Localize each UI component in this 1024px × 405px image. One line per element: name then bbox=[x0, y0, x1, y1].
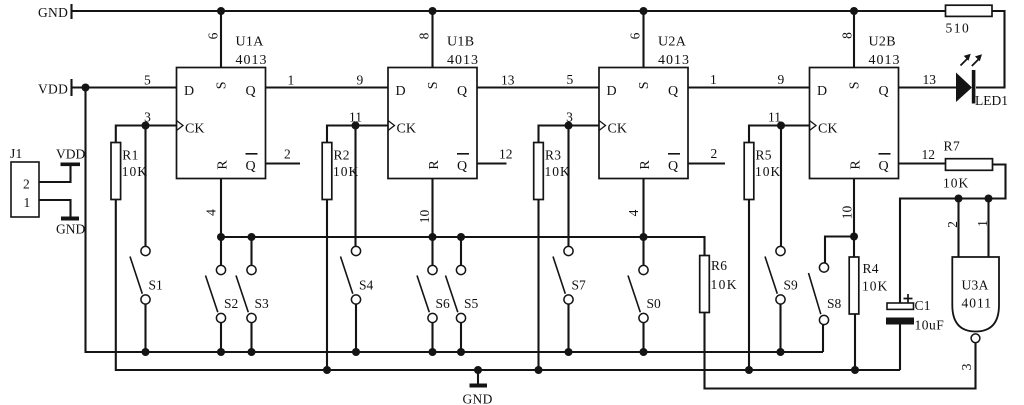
svg-text:VDD: VDD bbox=[56, 147, 85, 162]
svg-text:6: 6 bbox=[627, 32, 642, 39]
resistor R4 10K bbox=[849, 257, 859, 314]
svg-text:U1A: U1A bbox=[236, 35, 265, 50]
wire bottom GND rail (R1 to C1) bbox=[116, 200, 900, 371]
switch S5 bbox=[456, 265, 465, 274]
switch S8 bbox=[819, 263, 828, 272]
svg-text:Q: Q bbox=[879, 159, 890, 174]
svg-text:9: 9 bbox=[357, 73, 364, 88]
svg-text:D: D bbox=[184, 84, 195, 99]
wire S1 to VDD bottom rail bbox=[144, 304, 146, 352]
node R3 / GND rail bbox=[535, 366, 543, 374]
svg-text:5: 5 bbox=[144, 73, 151, 88]
node S0 / VDD rail bbox=[640, 348, 648, 356]
svg-text:R: R bbox=[427, 160, 442, 170]
svg-text:S7: S7 bbox=[572, 277, 587, 292]
switch S2 bbox=[216, 265, 225, 274]
wire reset net to S0 bbox=[642, 237, 644, 265]
svg-text:CK: CK bbox=[608, 122, 627, 137]
wire CK net to R5 / U2B CK bbox=[749, 126, 810, 143]
resistor 510 bbox=[946, 5, 993, 16]
svg-text:S3: S3 bbox=[255, 296, 270, 311]
svg-text:U2B: U2B bbox=[869, 35, 896, 50]
svg-text:4013: 4013 bbox=[869, 53, 901, 68]
svg-text:R1: R1 bbox=[122, 148, 138, 163]
wire VDD drop to bottom VDD rail bbox=[86, 88, 824, 353]
svg-text:GND: GND bbox=[463, 392, 493, 405]
svg-text:S1: S1 bbox=[149, 277, 163, 292]
wire reset net to S3 bbox=[250, 237, 252, 265]
svg-text:R2: R2 bbox=[334, 148, 350, 163]
wire S7 to VDD bottom rail bbox=[567, 304, 569, 352]
wire U1A Q to U1B D bbox=[266, 86, 389, 88]
resistor R2 10K bbox=[322, 143, 332, 200]
wire CK net to S9 bbox=[780, 126, 782, 247]
svg-text:10K: 10K bbox=[943, 176, 969, 191]
node VDD junction bbox=[82, 84, 90, 92]
wire CK net to R1 / U1A CK bbox=[116, 126, 177, 143]
svg-text:8: 8 bbox=[416, 32, 431, 39]
LED D1 bbox=[956, 73, 972, 103]
wire U1A Q-bar stub (pin 2) bbox=[266, 162, 301, 164]
node pin2 / RC net bbox=[955, 195, 963, 203]
wire CK net to R3 / U2A CK bbox=[539, 126, 600, 143]
resistor R3 10K bbox=[534, 143, 544, 200]
power symbol VDD (J1) bbox=[61, 163, 81, 167]
svg-text:U1B: U1B bbox=[447, 35, 474, 50]
node S1 / VDD rail bbox=[142, 348, 150, 356]
svg-text:9: 9 bbox=[778, 72, 785, 87]
wire CK net to S7 bbox=[567, 126, 569, 247]
D flip-flop U2A 4013 bbox=[599, 68, 688, 179]
node S9 / VDD rail bbox=[777, 348, 785, 356]
svg-text:LED1: LED1 bbox=[975, 93, 1008, 108]
node R2 / GND rail bbox=[323, 366, 331, 374]
node GND rail / ground stem bbox=[474, 366, 482, 374]
wire S0 to VDD bottom rail bbox=[642, 323, 644, 352]
switch S9 bbox=[776, 246, 785, 255]
wire U3A pin 1 bbox=[987, 199, 989, 258]
svg-text:2: 2 bbox=[284, 147, 291, 162]
wire U2B S pin to GND rail bbox=[853, 11, 855, 68]
svg-text:S8: S8 bbox=[827, 296, 842, 311]
svg-text:2: 2 bbox=[23, 177, 30, 192]
wire S2 to VDD bottom rail bbox=[220, 323, 222, 352]
wire U1A S pin to GND rail bbox=[220, 11, 222, 68]
D flip-flop U1B 4013 bbox=[388, 68, 477, 179]
svg-text:10: 10 bbox=[839, 206, 854, 220]
svg-text:R7: R7 bbox=[944, 139, 961, 154]
wire R7 to U3A inputs / C1 top bbox=[900, 165, 1006, 304]
wire U3A pin 2 bbox=[957, 199, 959, 258]
ground symbol (bottom) bbox=[477, 370, 479, 384]
node S6 / VDD rail bbox=[429, 348, 437, 356]
svg-text:GND: GND bbox=[56, 222, 85, 237]
wire U1B S pin to GND rail bbox=[431, 11, 433, 68]
switch S1 bbox=[141, 246, 150, 255]
svg-text:Q: Q bbox=[246, 84, 257, 99]
wire U2A S pin to GND rail bbox=[642, 11, 644, 68]
svg-text:6: 6 bbox=[205, 32, 220, 39]
wire R3 bottom to GND rail bbox=[537, 200, 539, 371]
node U1A R / reset net bbox=[217, 233, 225, 241]
node S-hang on CK net bbox=[352, 122, 360, 130]
node S7 / VDD rail bbox=[565, 348, 573, 356]
svg-text:Q: Q bbox=[668, 84, 679, 99]
node U1B S / GND rail junction bbox=[429, 7, 437, 15]
switch S7 bbox=[564, 246, 573, 255]
svg-text:U3A: U3A bbox=[962, 278, 989, 293]
svg-text:D: D bbox=[817, 84, 828, 99]
switch S3 bbox=[247, 265, 256, 274]
wire reset net (pin 4 line) to R6 bbox=[221, 237, 705, 256]
wire U1B R pin down bbox=[431, 179, 433, 238]
node S5 hang / reset net bbox=[457, 233, 465, 241]
svg-text:4011: 4011 bbox=[962, 296, 993, 311]
svg-text:2: 2 bbox=[711, 146, 718, 161]
GND rail tick bbox=[70, 4, 72, 19]
nand gate U3A 4011 bbox=[952, 257, 999, 332]
wire U2B R pin to R4 and S8 bbox=[853, 179, 855, 237]
wire U1B Q to U2A D bbox=[477, 86, 599, 88]
wire S3 to VDD bottom rail bbox=[250, 323, 252, 352]
wire S4 to VDD bottom rail bbox=[355, 304, 357, 352]
svg-text:C1: C1 bbox=[915, 298, 931, 313]
wire S8 to VDD bottom rail end bbox=[822, 325, 824, 352]
svg-text:10K: 10K bbox=[711, 277, 738, 292]
wire R5 bottom to GND rail bbox=[748, 200, 750, 371]
wire U1B Q-bar stub (pin 12) bbox=[477, 162, 507, 164]
svg-text:13: 13 bbox=[923, 72, 937, 87]
svg-text:U2A: U2A bbox=[658, 35, 687, 50]
svg-text:D: D bbox=[396, 84, 407, 99]
svg-text:10uF: 10uF bbox=[915, 318, 945, 333]
svg-text:4013: 4013 bbox=[658, 53, 690, 68]
wire CK net to S4 bbox=[354, 126, 356, 247]
wire U2A Q-bar stub (pin 2) bbox=[688, 162, 725, 164]
node S3 hang / reset net bbox=[248, 233, 256, 241]
svg-text:S: S bbox=[215, 81, 230, 89]
wire J1 pin 2 to VDD symbol bbox=[39, 166, 71, 182]
wire VDD rail to U1A D bbox=[72, 86, 177, 88]
svg-text:12: 12 bbox=[499, 147, 513, 162]
switch S6 bbox=[428, 265, 437, 274]
svg-text:CK: CK bbox=[185, 122, 204, 137]
svg-text:1: 1 bbox=[288, 73, 295, 88]
capacitor C1 10uF bbox=[887, 303, 914, 309]
svg-text:3: 3 bbox=[959, 363, 974, 370]
svg-text:10K: 10K bbox=[862, 279, 888, 294]
wire S9 to VDD bottom rail bbox=[779, 304, 781, 352]
svg-text:GND: GND bbox=[38, 5, 68, 20]
svg-text:13: 13 bbox=[501, 73, 515, 88]
svg-text:R3: R3 bbox=[545, 148, 561, 163]
svg-text:R: R bbox=[638, 160, 653, 170]
wire reset net to S2 bbox=[220, 237, 222, 265]
svg-text:Q: Q bbox=[457, 159, 468, 174]
svg-text:J1: J1 bbox=[10, 146, 23, 161]
svg-text:3: 3 bbox=[144, 110, 151, 125]
svg-text:S: S bbox=[426, 81, 441, 89]
svg-text:8: 8 bbox=[839, 32, 854, 39]
svg-text:Q: Q bbox=[457, 84, 468, 99]
node S-hang on CK net bbox=[565, 122, 573, 130]
node U2A S / GND rail junction bbox=[640, 7, 648, 15]
svg-text:S4: S4 bbox=[359, 277, 374, 292]
svg-text:Q: Q bbox=[879, 84, 890, 99]
svg-text:4: 4 bbox=[626, 209, 641, 216]
svg-text:S2: S2 bbox=[224, 296, 238, 311]
svg-text:D: D bbox=[607, 84, 618, 99]
node U2B R / R4 / S8 junction bbox=[850, 233, 858, 241]
svg-text:1: 1 bbox=[24, 195, 31, 210]
svg-text:10K: 10K bbox=[545, 164, 571, 179]
wire 510 to LED1 cathode bbox=[976, 11, 1005, 88]
wire J1 pin 1 to ground symbol bbox=[39, 200, 71, 217]
svg-text:4013: 4013 bbox=[236, 53, 268, 68]
svg-text:Q: Q bbox=[668, 159, 679, 174]
node pin1 / RC net bbox=[985, 195, 993, 203]
wire reset net to S6 bbox=[431, 237, 433, 265]
wire GND top rail bbox=[72, 10, 947, 12]
resistor R5 10K bbox=[744, 143, 754, 200]
node S2 / VDD rail bbox=[217, 348, 225, 356]
svg-text:10K: 10K bbox=[755, 164, 781, 179]
node R5 / GND rail bbox=[745, 366, 753, 374]
svg-text:12: 12 bbox=[922, 147, 936, 162]
wire reset net to S5 bbox=[460, 237, 462, 265]
svg-text:S6: S6 bbox=[436, 296, 451, 311]
wire U2B Q to LED1 anode bbox=[899, 86, 957, 88]
svg-text:R5: R5 bbox=[756, 148, 772, 163]
svg-text:11: 11 bbox=[349, 110, 362, 125]
svg-text:R: R bbox=[849, 160, 864, 170]
node U2A R / reset net bbox=[640, 233, 648, 241]
node S-hang on CK net bbox=[777, 122, 785, 130]
svg-text:11: 11 bbox=[768, 110, 781, 125]
svg-text:4013: 4013 bbox=[447, 53, 479, 68]
node S-hang on CK net bbox=[142, 122, 150, 130]
svg-text:R: R bbox=[216, 160, 231, 170]
svg-text:3: 3 bbox=[566, 110, 573, 125]
svg-text:10: 10 bbox=[417, 210, 432, 224]
svg-text:S5: S5 bbox=[464, 296, 479, 311]
node U2B S / GND rail junction bbox=[850, 7, 858, 15]
D flip-flop U2B 4013 bbox=[810, 68, 899, 179]
node R4 / GND rail bbox=[851, 366, 859, 374]
svg-text:2: 2 bbox=[945, 221, 960, 228]
svg-text:R4: R4 bbox=[863, 261, 879, 276]
wire S6 to VDD bottom rail bbox=[431, 323, 433, 352]
VDD rail tick bbox=[70, 79, 72, 96]
D flip-flop U1A 4013 bbox=[177, 68, 266, 179]
node S3 / VDD rail bbox=[248, 348, 256, 356]
resistor R1 10K bbox=[111, 143, 121, 200]
resistor R6 10K bbox=[700, 256, 710, 313]
wire C1 bottom to GND rail end bbox=[899, 325, 901, 371]
node U1B R / reset net bbox=[429, 233, 437, 241]
svg-text:510: 510 bbox=[946, 21, 971, 36]
node U1A S / GND rail junction bbox=[217, 7, 225, 15]
wire R4 bottom to GND rail bbox=[854, 314, 856, 370]
svg-text:1: 1 bbox=[975, 220, 990, 227]
svg-text:10K: 10K bbox=[122, 164, 148, 179]
wire CK net to S1 bbox=[144, 126, 146, 247]
node S4 / VDD rail bbox=[352, 348, 360, 356]
wire U1A R pin down bbox=[220, 179, 222, 238]
svg-text:S0: S0 bbox=[647, 296, 662, 311]
node S5 / VDD rail bbox=[457, 348, 465, 356]
svg-text:CK: CK bbox=[397, 122, 416, 137]
wire CK net to R2 / U1B CK bbox=[327, 126, 388, 143]
wire U2B Q-bar to R7 (pin 12) bbox=[899, 162, 946, 164]
svg-text:VDD: VDD bbox=[38, 82, 68, 97]
svg-text:4: 4 bbox=[203, 209, 218, 216]
wire U2A R pin down bbox=[642, 179, 644, 238]
svg-text:1: 1 bbox=[710, 72, 717, 87]
ground symbol (J1) bbox=[61, 217, 79, 221]
wire S5 to VDD bottom rail bbox=[460, 323, 462, 352]
svg-text:5: 5 bbox=[567, 72, 574, 87]
wire R2 bottom to GND rail bbox=[326, 200, 328, 371]
svg-text:S9: S9 bbox=[784, 277, 799, 292]
wire U2A Q to U2B D bbox=[688, 86, 810, 88]
svg-text:S: S bbox=[848, 81, 863, 89]
svg-text:CK: CK bbox=[818, 122, 837, 137]
switch S0 bbox=[639, 265, 648, 274]
svg-text:S: S bbox=[637, 81, 652, 89]
wire R6 bottom to U3A output line bbox=[705, 313, 976, 389]
switch S4 bbox=[351, 246, 360, 255]
svg-text:Q: Q bbox=[246, 159, 257, 174]
svg-text:R6: R6 bbox=[711, 258, 727, 273]
